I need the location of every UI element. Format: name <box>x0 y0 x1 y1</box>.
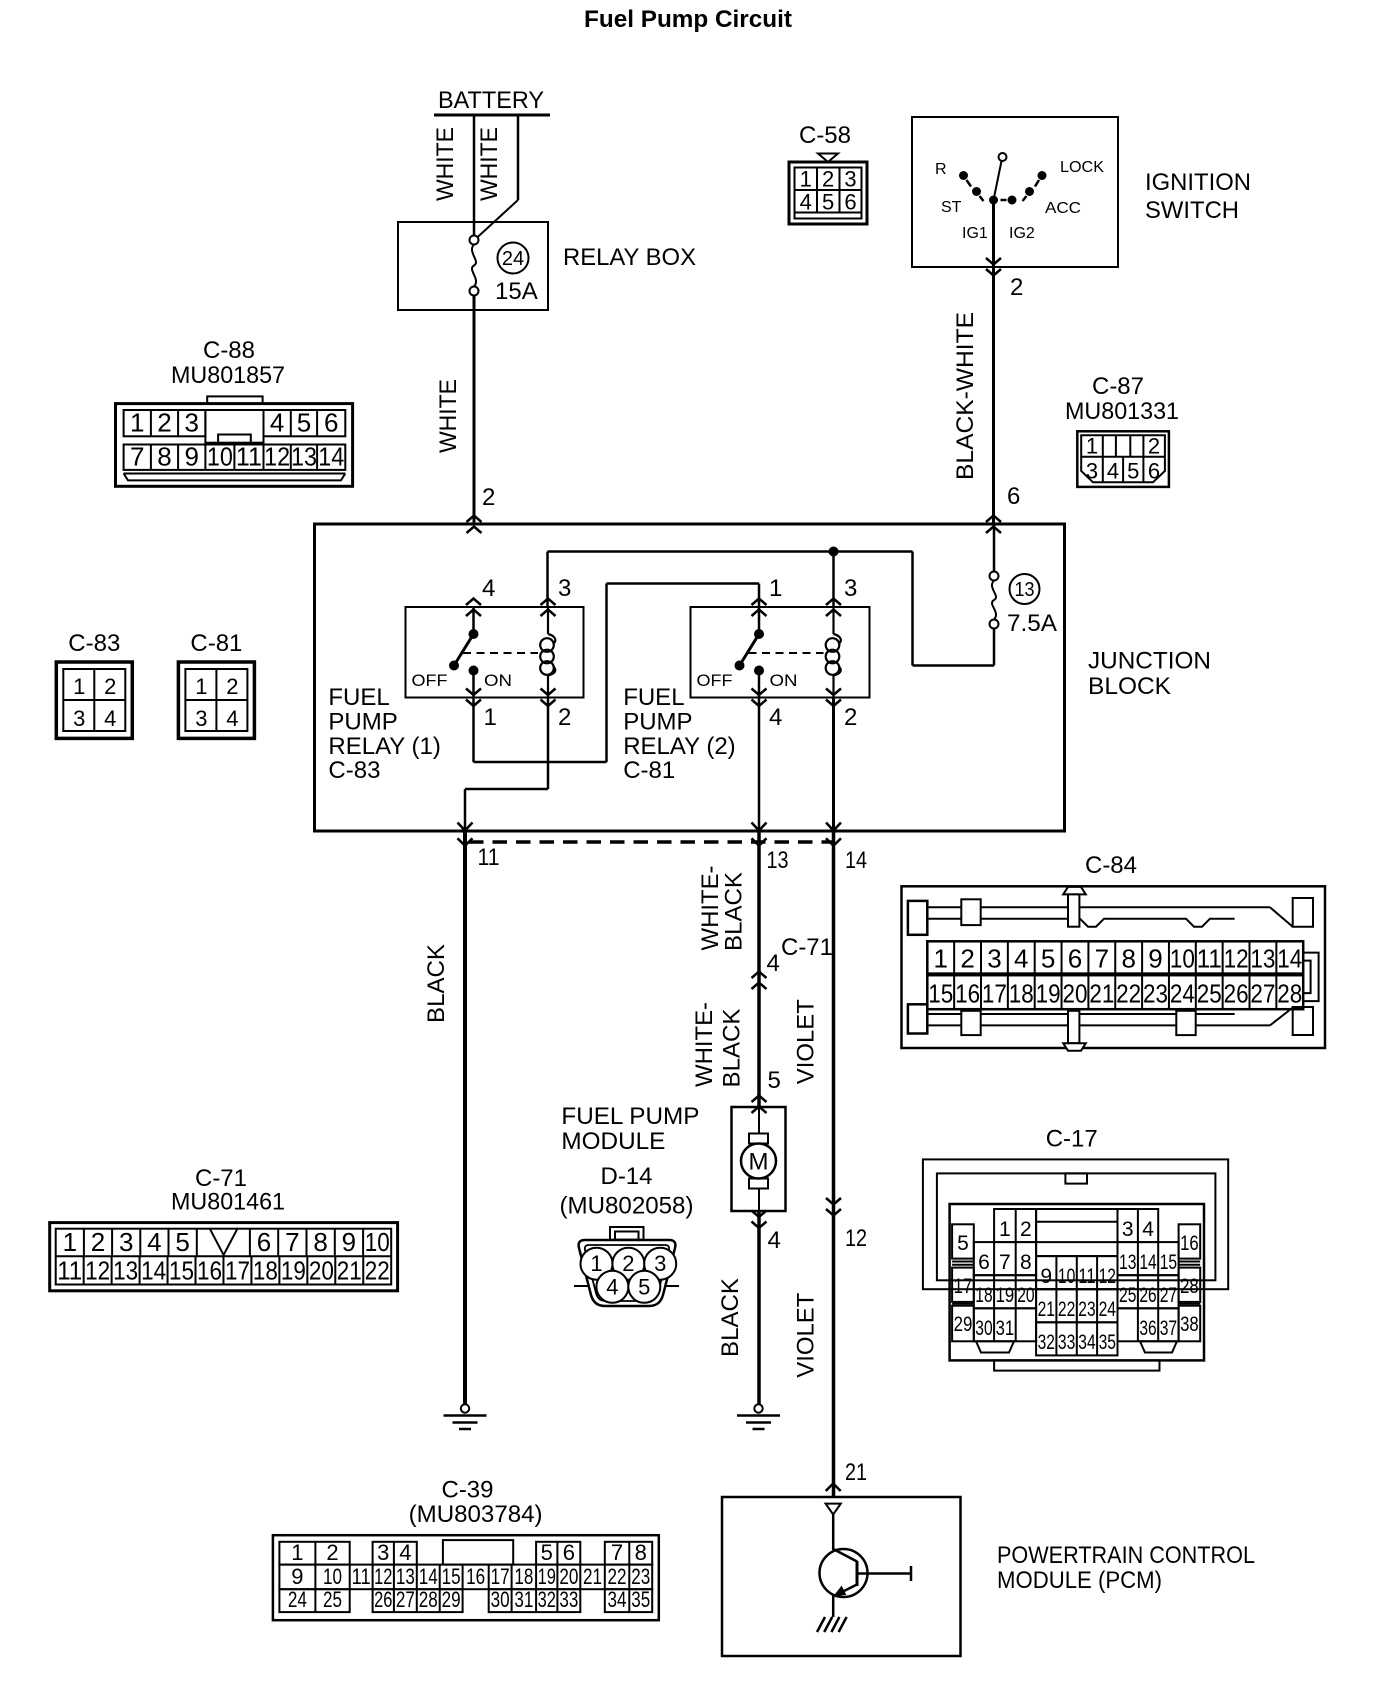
svg-text:36: 36 <box>1139 1317 1156 1340</box>
svg-text:11: 11 <box>57 1256 82 1286</box>
svg-text:21: 21 <box>1038 1298 1055 1321</box>
svg-text:FUEL: FUEL <box>623 684 684 711</box>
svg-text:3: 3 <box>119 1227 133 1257</box>
svg-text:LOCK: LOCK <box>1060 159 1104 176</box>
svg-text:4: 4 <box>768 1227 781 1254</box>
svg-text:19: 19 <box>1036 979 1061 1009</box>
svg-text:9: 9 <box>1040 1265 1052 1288</box>
svg-text:1: 1 <box>933 944 947 974</box>
svg-text:M: M <box>749 1149 769 1176</box>
svg-text:3: 3 <box>1122 1218 1134 1241</box>
svg-text:4: 4 <box>606 1274 618 1299</box>
svg-text:WHITE: WHITE <box>435 379 462 453</box>
svg-text:8: 8 <box>1020 1251 1032 1274</box>
svg-text:C-58: C-58 <box>799 122 851 149</box>
svg-text:4: 4 <box>147 1227 161 1257</box>
svg-text:1: 1 <box>769 575 782 602</box>
svg-text:IGNITION: IGNITION <box>1145 169 1251 196</box>
svg-text:29: 29 <box>954 1313 973 1336</box>
svg-text:22: 22 <box>365 1256 390 1286</box>
svg-text:2: 2 <box>104 674 116 699</box>
svg-text:RELAY (2): RELAY (2) <box>623 733 736 760</box>
svg-text:13: 13 <box>1250 944 1275 974</box>
svg-text:19: 19 <box>281 1256 306 1286</box>
svg-text:25: 25 <box>1119 1284 1136 1307</box>
svg-text:BATTERY: BATTERY <box>438 87 544 114</box>
svg-text:7: 7 <box>1095 944 1109 974</box>
svg-text:4: 4 <box>104 706 116 731</box>
svg-text:11: 11 <box>352 1564 371 1589</box>
svg-text:(MU802058): (MU802058) <box>560 1193 694 1220</box>
svg-text:23: 23 <box>1078 1298 1095 1321</box>
svg-text:ON: ON <box>770 671 798 690</box>
svg-text:18: 18 <box>1009 979 1034 1009</box>
svg-text:6: 6 <box>257 1227 271 1257</box>
svg-text:SWITCH: SWITCH <box>1145 197 1239 224</box>
svg-text:22: 22 <box>1058 1298 1075 1321</box>
svg-text:2: 2 <box>226 674 238 699</box>
svg-text:5: 5 <box>638 1274 650 1299</box>
svg-text:2: 2 <box>91 1227 105 1257</box>
svg-text:9: 9 <box>342 1227 356 1257</box>
svg-text:12: 12 <box>264 442 290 472</box>
svg-text:34: 34 <box>608 1587 627 1612</box>
svg-text:BLACK: BLACK <box>719 1009 746 1088</box>
svg-text:BLACK: BLACK <box>717 1278 744 1357</box>
svg-text:R: R <box>935 161 947 178</box>
svg-text:5: 5 <box>297 408 311 438</box>
svg-text:5: 5 <box>957 1232 969 1255</box>
svg-text:VIOLET: VIOLET <box>793 1292 820 1377</box>
svg-text:7.5A: 7.5A <box>1007 610 1057 637</box>
svg-text:6: 6 <box>1007 483 1020 510</box>
svg-text:12: 12 <box>1224 944 1249 974</box>
svg-text:16: 16 <box>466 1564 485 1589</box>
svg-text:17: 17 <box>225 1256 250 1286</box>
svg-text:2: 2 <box>822 167 834 192</box>
svg-text:13: 13 <box>291 442 317 472</box>
svg-text:32: 32 <box>538 1587 556 1612</box>
svg-text:ACC: ACC <box>1045 200 1081 217</box>
svg-text:25: 25 <box>1197 979 1222 1009</box>
svg-text:OFF: OFF <box>412 671 448 690</box>
svg-text:1: 1 <box>800 167 812 192</box>
svg-text:4: 4 <box>226 706 238 731</box>
svg-text:RELAY (1): RELAY (1) <box>328 733 441 760</box>
svg-text:C-83: C-83 <box>68 630 120 657</box>
svg-text:OFF: OFF <box>697 671 733 690</box>
svg-text:15: 15 <box>928 979 953 1009</box>
svg-text:7: 7 <box>999 1251 1011 1274</box>
svg-text:(MU803784): (MU803784) <box>409 1501 543 1528</box>
svg-text:14: 14 <box>419 1564 438 1589</box>
svg-text:MU801331: MU801331 <box>1065 398 1179 425</box>
svg-text:6: 6 <box>563 1540 575 1565</box>
svg-text:29: 29 <box>442 1587 461 1612</box>
svg-text:8: 8 <box>157 442 171 472</box>
svg-text:8: 8 <box>635 1540 647 1565</box>
svg-text:MODULE (PCM): MODULE (PCM) <box>997 1567 1162 1594</box>
svg-text:14: 14 <box>1277 944 1302 974</box>
svg-text:4: 4 <box>767 950 780 977</box>
svg-text:4: 4 <box>270 408 284 438</box>
svg-text:BLACK: BLACK <box>721 872 748 951</box>
svg-text:10: 10 <box>207 442 233 472</box>
svg-text:24: 24 <box>1099 1298 1117 1321</box>
svg-text:7: 7 <box>611 1540 623 1565</box>
svg-text:PUMP: PUMP <box>328 708 397 735</box>
svg-text:20: 20 <box>559 1564 578 1589</box>
svg-text:10: 10 <box>1170 944 1195 974</box>
svg-text:3: 3 <box>844 575 857 602</box>
svg-text:13: 13 <box>113 1256 138 1286</box>
svg-text:C-81: C-81 <box>623 757 675 784</box>
svg-text:ST: ST <box>941 199 962 216</box>
svg-text:23: 23 <box>631 1564 650 1589</box>
svg-text:11: 11 <box>478 844 500 871</box>
svg-text:2: 2 <box>1010 274 1023 301</box>
svg-text:24: 24 <box>288 1587 307 1612</box>
svg-text:5: 5 <box>1127 459 1139 484</box>
svg-text:20: 20 <box>1062 979 1087 1009</box>
svg-text:4: 4 <box>769 704 782 731</box>
svg-text:7: 7 <box>130 442 144 472</box>
svg-text:26: 26 <box>1224 979 1249 1009</box>
svg-text:19: 19 <box>538 1564 556 1589</box>
svg-text:POWERTRAIN CONTROL: POWERTRAIN CONTROL <box>997 1542 1255 1569</box>
svg-text:6: 6 <box>844 190 856 215</box>
svg-text:3: 3 <box>377 1540 389 1565</box>
svg-text:25: 25 <box>323 1587 342 1612</box>
svg-text:1: 1 <box>73 674 85 699</box>
svg-text:3: 3 <box>558 575 571 602</box>
svg-text:3: 3 <box>654 1251 666 1276</box>
svg-text:28: 28 <box>1277 979 1302 1009</box>
svg-text:2: 2 <box>1020 1218 1032 1241</box>
svg-text:18: 18 <box>253 1256 278 1286</box>
svg-text:3: 3 <box>73 706 85 731</box>
svg-text:3: 3 <box>844 167 856 192</box>
svg-text:4: 4 <box>1142 1218 1154 1241</box>
svg-text:16: 16 <box>197 1256 222 1286</box>
svg-text:C-87: C-87 <box>1092 373 1144 400</box>
svg-text:3: 3 <box>987 944 1001 974</box>
svg-text:4: 4 <box>399 1540 411 1565</box>
svg-text:13: 13 <box>1119 1251 1136 1274</box>
svg-text:35: 35 <box>631 1587 650 1612</box>
svg-text:38: 38 <box>1180 1313 1199 1336</box>
svg-text:ON: ON <box>484 671 512 690</box>
svg-text:5: 5 <box>175 1227 189 1257</box>
svg-text:32: 32 <box>1038 1331 1055 1354</box>
svg-text:2: 2 <box>482 484 495 511</box>
svg-text:37: 37 <box>1160 1317 1177 1340</box>
svg-text:27: 27 <box>396 1587 415 1612</box>
svg-text:12: 12 <box>845 1225 867 1252</box>
svg-text:5: 5 <box>768 1067 781 1094</box>
svg-text:8: 8 <box>313 1227 327 1257</box>
svg-text:31: 31 <box>514 1587 533 1612</box>
svg-text:C-71: C-71 <box>781 934 833 961</box>
svg-text:1: 1 <box>1086 433 1098 458</box>
svg-text:27: 27 <box>1250 979 1275 1009</box>
svg-text:13: 13 <box>1015 579 1035 601</box>
svg-text:WHITE-: WHITE- <box>691 1002 718 1087</box>
svg-text:13: 13 <box>767 847 789 874</box>
svg-text:30: 30 <box>491 1587 510 1612</box>
svg-text:JUNCTION: JUNCTION <box>1088 648 1211 675</box>
svg-text:9: 9 <box>184 442 198 472</box>
svg-text:3: 3 <box>184 408 198 438</box>
svg-text:26: 26 <box>374 1587 392 1612</box>
svg-text:WHITE: WHITE <box>432 127 459 201</box>
svg-text:5: 5 <box>541 1540 553 1565</box>
svg-text:5: 5 <box>822 190 834 215</box>
svg-text:33: 33 <box>559 1587 578 1612</box>
svg-text:6: 6 <box>1068 944 1082 974</box>
svg-text:12: 12 <box>85 1256 110 1286</box>
svg-text:14: 14 <box>141 1256 166 1286</box>
svg-text:MU801461: MU801461 <box>171 1188 285 1215</box>
svg-text:14: 14 <box>318 442 344 472</box>
svg-text:33: 33 <box>1058 1331 1075 1354</box>
svg-text:MODULE: MODULE <box>561 1128 665 1155</box>
svg-text:3: 3 <box>1086 459 1098 484</box>
svg-text:2: 2 <box>558 704 571 731</box>
svg-text:24: 24 <box>1170 979 1195 1009</box>
svg-text:FUEL: FUEL <box>328 684 389 711</box>
svg-text:1: 1 <box>291 1540 303 1565</box>
svg-text:15: 15 <box>169 1256 194 1286</box>
svg-text:9: 9 <box>1148 944 1162 974</box>
svg-text:13: 13 <box>396 1564 415 1589</box>
svg-text:28: 28 <box>419 1587 438 1612</box>
svg-text:21: 21 <box>583 1564 602 1589</box>
svg-text:1: 1 <box>195 674 207 699</box>
svg-text:1: 1 <box>590 1251 602 1276</box>
svg-text:10: 10 <box>1058 1265 1075 1288</box>
svg-text:4: 4 <box>1107 459 1119 484</box>
svg-text:1: 1 <box>63 1227 77 1257</box>
svg-text:BLACK-WHITE: BLACK-WHITE <box>952 312 979 480</box>
svg-text:WHITE: WHITE <box>476 127 503 201</box>
svg-text:1: 1 <box>999 1218 1011 1241</box>
svg-text:8: 8 <box>1121 944 1135 974</box>
svg-text:28: 28 <box>1180 1275 1199 1298</box>
svg-text:30: 30 <box>975 1317 992 1340</box>
svg-text:31: 31 <box>996 1317 1015 1340</box>
svg-text:27: 27 <box>1160 1284 1177 1307</box>
svg-text:12: 12 <box>1099 1265 1116 1288</box>
svg-text:1: 1 <box>130 408 144 438</box>
svg-text:C-84: C-84 <box>1085 852 1137 879</box>
svg-text:6: 6 <box>324 408 338 438</box>
svg-text:16: 16 <box>955 979 980 1009</box>
svg-text:15A: 15A <box>495 278 538 305</box>
svg-text:BLACK: BLACK <box>423 944 450 1023</box>
svg-text:24: 24 <box>502 248 524 270</box>
svg-text:2: 2 <box>326 1540 338 1565</box>
svg-text:C-88: C-88 <box>203 337 255 364</box>
svg-text:17: 17 <box>982 979 1007 1009</box>
svg-text:4: 4 <box>800 190 812 215</box>
svg-text:IG1: IG1 <box>962 225 988 242</box>
svg-text:6: 6 <box>1148 459 1160 484</box>
svg-text:Fuel Pump Circuit: Fuel Pump Circuit <box>584 6 792 33</box>
svg-text:9: 9 <box>291 1564 303 1589</box>
svg-text:18: 18 <box>975 1284 992 1307</box>
svg-text:19: 19 <box>996 1284 1015 1307</box>
svg-text:14: 14 <box>1139 1251 1157 1274</box>
svg-text:11: 11 <box>1197 944 1222 974</box>
svg-text:C-17: C-17 <box>1046 1126 1098 1153</box>
svg-text:4: 4 <box>1014 944 1028 974</box>
svg-text:6: 6 <box>978 1251 990 1274</box>
svg-text:15: 15 <box>442 1564 461 1589</box>
svg-text:5: 5 <box>1041 944 1055 974</box>
svg-text:21: 21 <box>1089 979 1114 1009</box>
svg-text:17: 17 <box>491 1564 510 1589</box>
svg-text:BLOCK: BLOCK <box>1088 673 1171 700</box>
svg-text:17: 17 <box>954 1275 973 1298</box>
svg-text:12: 12 <box>374 1564 392 1589</box>
svg-text:7: 7 <box>285 1227 299 1257</box>
svg-text:15: 15 <box>1160 1251 1177 1274</box>
svg-text:FUEL PUMP: FUEL PUMP <box>561 1103 699 1130</box>
svg-text:11: 11 <box>236 442 262 472</box>
svg-text:2: 2 <box>960 944 974 974</box>
svg-text:10: 10 <box>323 1564 342 1589</box>
svg-text:35: 35 <box>1099 1331 1116 1354</box>
svg-text:MU801857: MU801857 <box>171 362 285 389</box>
svg-text:34: 34 <box>1078 1331 1096 1354</box>
svg-text:3: 3 <box>195 706 207 731</box>
svg-text:20: 20 <box>309 1256 334 1286</box>
svg-text:D-14: D-14 <box>601 1163 653 1190</box>
svg-text:10: 10 <box>365 1227 390 1257</box>
svg-text:11: 11 <box>1078 1265 1095 1288</box>
svg-text:2: 2 <box>844 704 857 731</box>
svg-text:2: 2 <box>622 1251 634 1276</box>
svg-text:23: 23 <box>1143 979 1168 1009</box>
svg-text:22: 22 <box>608 1564 627 1589</box>
svg-text:14: 14 <box>845 847 867 874</box>
svg-text:2: 2 <box>1148 433 1160 458</box>
svg-text:20: 20 <box>1017 1284 1034 1307</box>
svg-text:4: 4 <box>482 575 495 602</box>
svg-text:RELAY BOX: RELAY BOX <box>563 244 696 271</box>
svg-text:C-83: C-83 <box>328 757 380 784</box>
svg-text:21: 21 <box>337 1256 362 1286</box>
svg-text:C-39: C-39 <box>442 1477 494 1504</box>
svg-text:18: 18 <box>514 1564 533 1589</box>
svg-text:IG2: IG2 <box>1009 225 1035 242</box>
svg-text:2: 2 <box>157 408 171 438</box>
svg-text:16: 16 <box>1180 1232 1199 1255</box>
svg-text:C-81: C-81 <box>190 630 242 657</box>
svg-text:22: 22 <box>1116 979 1141 1009</box>
svg-text:PUMP: PUMP <box>623 708 692 735</box>
svg-text:VIOLET: VIOLET <box>793 999 820 1084</box>
svg-text:26: 26 <box>1139 1284 1156 1307</box>
svg-text:21: 21 <box>845 1459 867 1486</box>
svg-text:1: 1 <box>484 704 497 731</box>
